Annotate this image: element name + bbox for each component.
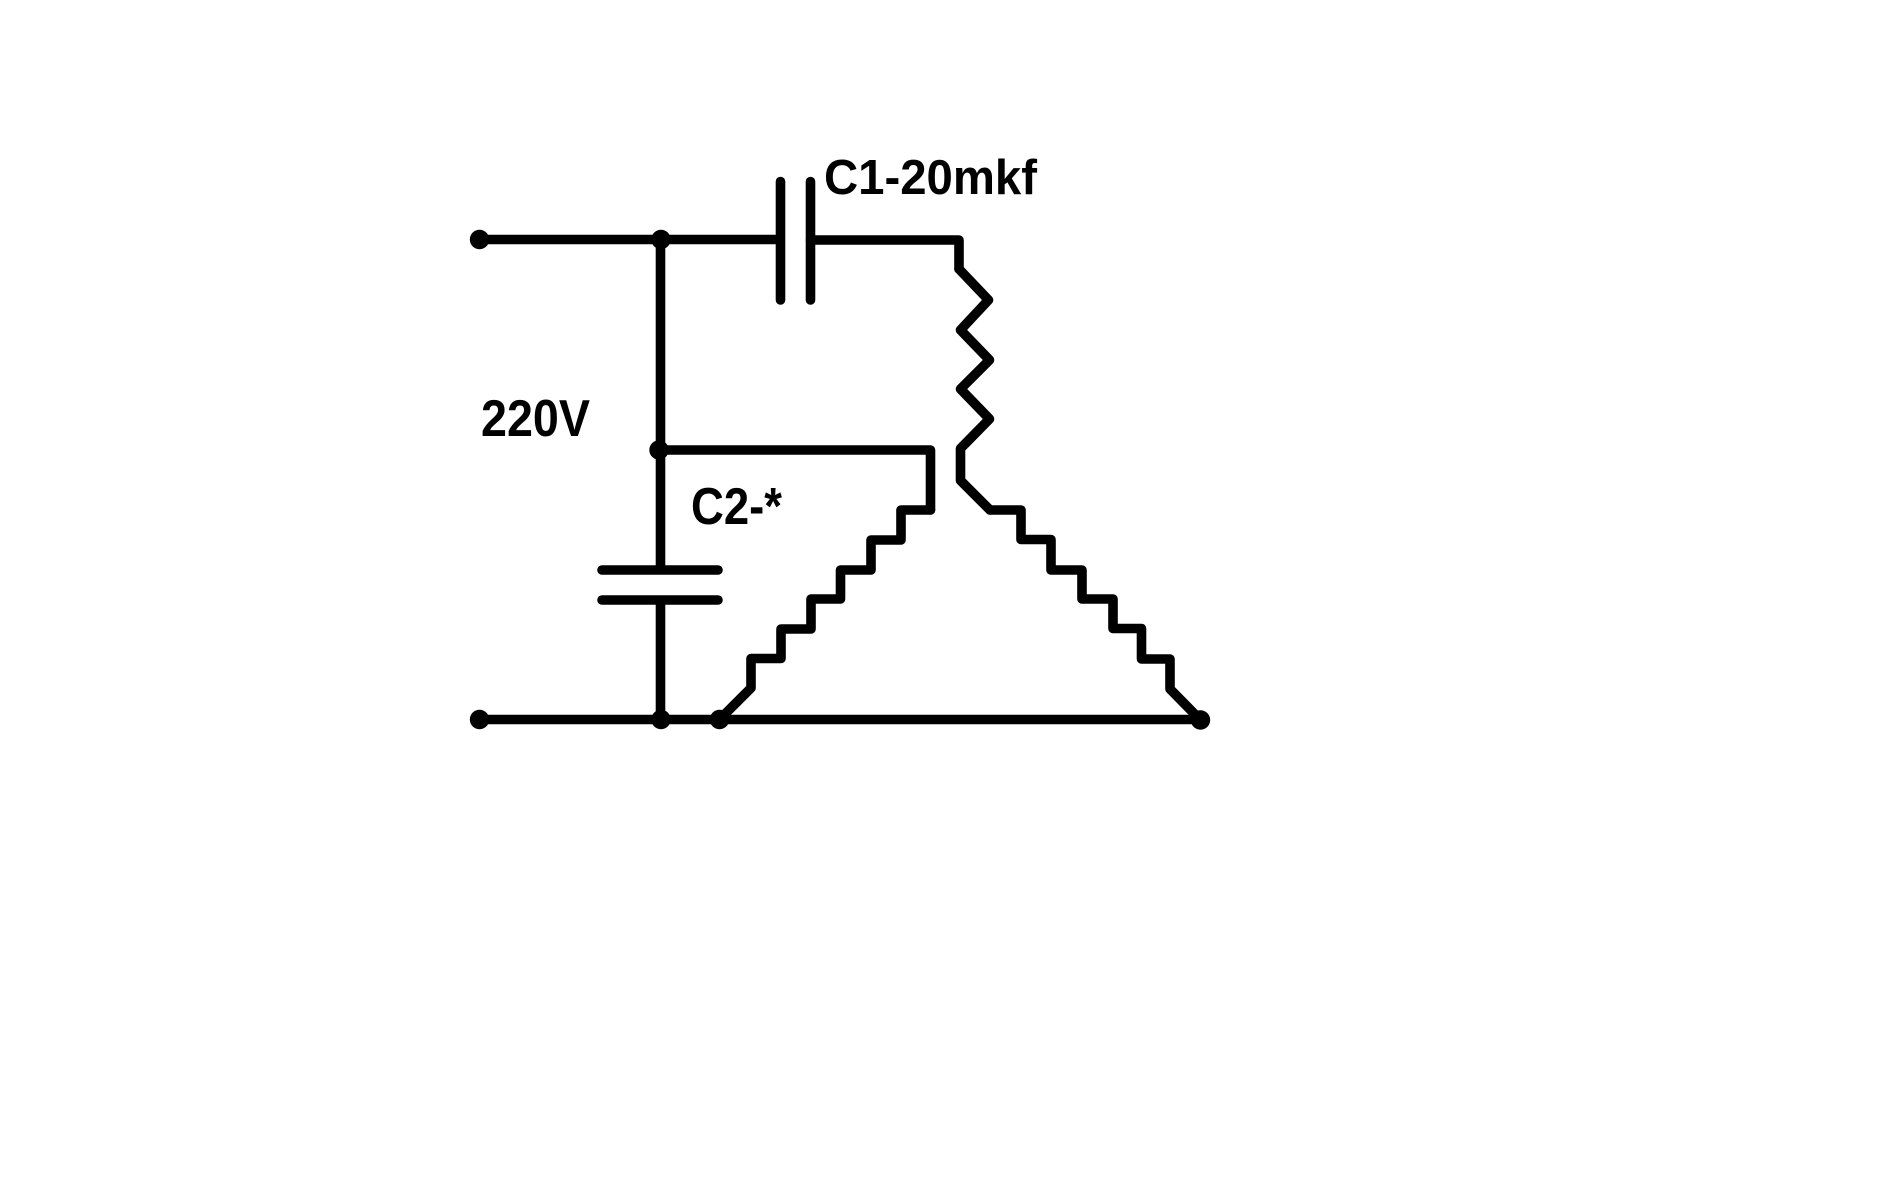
winding L2 right staircase (990, 510, 1201, 720)
node junction top (651, 230, 670, 249)
winding L3 left staircase (720, 510, 931, 720)
svg-text:220V: 220V (481, 390, 590, 448)
wire top line right segment with corner down (811, 240, 960, 269)
wire C2 branch horizontal with corner down (661, 450, 931, 510)
wire bottom line (480, 715, 1201, 725)
wire top line left segment (480, 235, 780, 245)
svg-text:C2-*: C2-* (691, 478, 783, 536)
capacitor C1 left plate (776, 182, 786, 301)
svg-text:C1-20mkf: C1-20mkf (824, 150, 1038, 205)
node winding tap bottom (710, 710, 729, 729)
winding L1 zigzag (959, 269, 990, 510)
node terminal top left (470, 230, 489, 249)
wire main vertical upper segment (656, 240, 666, 567)
node terminal bottom left (470, 710, 489, 729)
node junction middle (649, 440, 668, 459)
node junction bottom (651, 710, 670, 729)
capacitor C2 bottom plate (602, 595, 718, 605)
wire main vertical lower segment (656, 604, 666, 720)
node terminal bottom right (1191, 710, 1210, 729)
capacitor C2 top plate (602, 565, 718, 575)
capacitor C1 right plate (806, 182, 816, 301)
